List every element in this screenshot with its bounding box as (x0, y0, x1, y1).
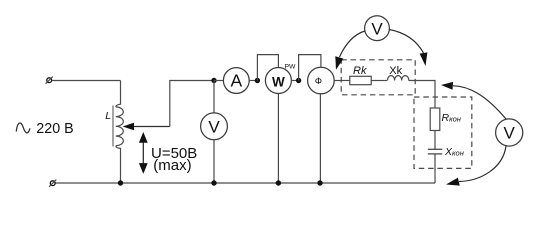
double arrow top head (139, 132, 148, 143)
voltmeter V1 dropper bottom (213, 140, 215, 183)
svg-text:220 В: 220 В (36, 121, 73, 137)
voltmeter V3 right (496, 119, 523, 146)
V3 bottom arrowhead (446, 178, 460, 186)
voltmeter V1 dropper top (213, 81, 215, 114)
resistor Rkon (430, 108, 440, 131)
V2 left arrowhead (335, 56, 343, 69)
wire A to node (249, 80, 257, 82)
svg-text:Xкон: Xкон (444, 146, 464, 158)
voltmeter V1 (201, 113, 228, 140)
wire W dropper (277, 94, 279, 184)
wire phase meter to box (334, 80, 350, 82)
V3 top arrowhead (441, 82, 453, 90)
capacitor Xkon plate bottom (428, 153, 443, 155)
wire riser down into coil (116, 81, 121, 107)
wire Rk to Xk (371, 80, 387, 82)
wattmeter current-coil bracket (257, 55, 278, 81)
wire Rkon to cap (434, 131, 436, 150)
wire top from T1 to riser (52, 80, 121, 82)
double arrow U=50V shaft (142, 140, 144, 166)
svg-text:(max): (max) (153, 157, 191, 174)
node dot L bottom (118, 180, 123, 185)
node junction before A (211, 78, 216, 83)
V3 bottom curved arrow (459, 146, 506, 182)
voltmeter V2 top (365, 16, 390, 41)
terminal T2 bottom-left (49, 180, 56, 187)
ammeter A1 (223, 68, 249, 94)
tap arrowhead (123, 123, 135, 130)
V2 right arrowhead (420, 52, 428, 66)
svg-text:V: V (208, 117, 220, 136)
wire junction to ammeter (214, 80, 223, 82)
phase meter voltage bracket (299, 55, 321, 81)
terminal T1 top-left (46, 77, 53, 84)
tap arrow line (133, 126, 170, 128)
svg-text:V: V (504, 124, 516, 143)
double arrow bottom head (139, 163, 148, 174)
svg-text:A: A (230, 71, 242, 91)
wire from coil bottom to bottom rail (116, 146, 121, 183)
inductor Xk (388, 76, 409, 81)
svg-text:Ф: Ф (315, 76, 322, 87)
bottom rail wire (55, 182, 435, 184)
node dot W bottom (276, 180, 281, 185)
svg-text:Rкон: Rкон (442, 112, 461, 124)
dashed box coil equivalent Rk Xk (341, 60, 415, 95)
wire tap riser up (170, 81, 214, 127)
dashed box capacitor equivalent (414, 97, 472, 168)
inductor L autotransformer coil (116, 107, 124, 146)
svg-text:W: W (272, 74, 285, 89)
wire phase meter dropper (319, 94, 321, 183)
node junction before phase meter (296, 78, 301, 83)
phase meter F1 (308, 67, 335, 94)
node junction before W (255, 78, 260, 83)
V2 left curved arrow (340, 31, 365, 57)
wire cap down to bottom rail (434, 154, 436, 183)
svg-text:Xk: Xk (389, 65, 402, 77)
AC sine symbol (16, 123, 30, 133)
V2 right curved arrow (389, 30, 423, 54)
V3 top curved arrow (453, 86, 506, 119)
wire W to node (291, 80, 298, 82)
core bar of L (112, 106, 114, 147)
svg-text:V: V (371, 19, 383, 38)
svg-text:Rk: Rk (353, 65, 367, 77)
node dot V1 bottom (211, 180, 216, 185)
svg-text:PW: PW (285, 63, 297, 70)
resistor Rk (350, 76, 371, 84)
wattmeter W1 (265, 68, 291, 94)
wire Xk to corner and down (409, 81, 435, 109)
capacitor Xkon plate top (428, 148, 443, 150)
svg-text:L: L (105, 110, 111, 122)
node dot phase bottom (317, 180, 322, 185)
